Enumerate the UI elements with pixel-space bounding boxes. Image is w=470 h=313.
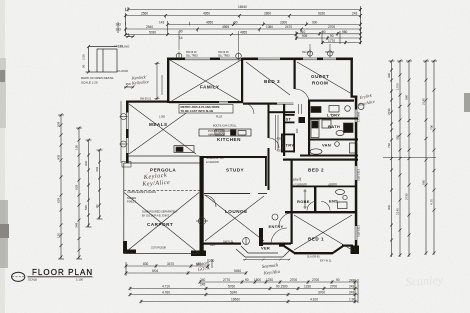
svg-text:143: 143 <box>116 23 122 27</box>
right step <box>351 96 358 98</box>
svg-text:SW 09 21: SW 09 21 <box>140 98 152 101</box>
svg-text:11: 11 <box>126 32 129 36</box>
svg-text:820: 820 <box>295 128 299 133</box>
svg-text:90: 90 <box>322 30 326 34</box>
svg-text:5/04: 5/04 <box>152 269 158 273</box>
wall over hall <box>269 111 295 113</box>
svg-text:143: 143 <box>159 20 165 24</box>
svg-text:2700: 2700 <box>330 285 337 289</box>
ldry/bath west wall <box>308 101 310 156</box>
svg-text:4.710: 4.710 <box>162 285 170 289</box>
svg-text:2300: 2300 <box>280 20 287 24</box>
svg-text:910: 910 <box>210 243 215 247</box>
notch wall <box>126 101 169 103</box>
svg-text:FLOOR PLAN: FLOOR PLAN <box>32 268 93 277</box>
svg-text:SW 09 0: SW 09 0 <box>302 51 312 54</box>
svg-text:90: 90 <box>336 278 340 282</box>
svg-text:SW 9 2L: SW 9 2L <box>223 240 234 244</box>
svg-text:1230: 1230 <box>266 278 273 282</box>
svg-text:BY (O) SUP A-E JOINT: BY (O) SUP A-E JOINT <box>142 214 169 218</box>
svg-text:96: 96 <box>82 64 86 68</box>
svg-text:980: 980 <box>342 30 348 34</box>
svg-text:BATH: BATH <box>328 124 340 129</box>
svg-text:ST: ST <box>286 117 292 122</box>
svg-text:LOUNGE: LOUNGE <box>225 209 248 214</box>
bed1 south wall stubs <box>279 245 285 247</box>
svg-text:2.55: 2.55 <box>82 54 86 60</box>
svg-text:CARPORT: CARPORT <box>147 222 173 227</box>
bath fixtures <box>310 104 364 155</box>
svg-text:90: 90 <box>245 278 249 282</box>
svg-text:2470: 2470 <box>285 25 292 29</box>
st/ptry west wall <box>283 104 285 156</box>
svg-text:90: 90 <box>330 34 334 38</box>
svg-text:905: 905 <box>57 155 61 160</box>
west wall window circles <box>121 114 127 120</box>
svg-text:243: 243 <box>349 279 355 283</box>
svg-text:ENTRY: ENTRY <box>269 224 284 229</box>
svg-text:ROBE: ROBE <box>297 199 310 204</box>
ldry south / bath north <box>310 118 358 120</box>
svg-text:760: 760 <box>387 143 391 148</box>
interior dim line left of family wall <box>155 62 163 100</box>
svg-text:628: 628 <box>57 198 61 203</box>
svg-text:1700: 1700 <box>396 83 400 90</box>
right wall upper <box>351 58 353 97</box>
svg-text:1.90: 1.90 <box>349 298 355 302</box>
svg-text:KITCHEN: KITCHEN <box>217 137 241 142</box>
lounge X diagonals <box>205 195 264 241</box>
svg-text:230: 230 <box>209 259 215 263</box>
svg-text:790: 790 <box>430 125 434 130</box>
svg-text:4.100: 4.100 <box>310 298 318 302</box>
top dim ticks <box>124 8 362 44</box>
bed3/guest divider <box>294 58 296 89</box>
svg-text:16560: 16560 <box>231 298 240 302</box>
svg-text:PERGOLA: PERGOLA <box>150 168 176 173</box>
robe/ens divider <box>314 187 316 212</box>
svg-text:150: 150 <box>126 82 131 86</box>
pergola / carport thin outline <box>124 156 200 254</box>
svg-text:420: 420 <box>277 149 282 153</box>
bed1 X diagonals <box>294 215 352 250</box>
family X diagonals <box>170 60 241 102</box>
ens fixtures <box>307 190 347 211</box>
svg-text:245: 245 <box>200 283 206 287</box>
scan left edge gray strip <box>0 0 5 313</box>
right dimension block <box>383 60 437 258</box>
left dimension block <box>58 114 103 260</box>
svg-text:TO BE CAST INTO SLAB: TO BE CAST INTO SLAB <box>181 109 214 113</box>
svg-text:4.70: 4.70 <box>430 199 434 205</box>
dimension division ticks <box>126 8 361 304</box>
svg-text:PTRY: PTRY <box>283 143 295 148</box>
ldry fixtures <box>311 107 321 113</box>
svg-text:EN 0906: EN 0906 <box>357 111 361 122</box>
svg-text:628: 628 <box>75 185 79 190</box>
family west wall <box>167 58 169 104</box>
note post <box>208 129 234 137</box>
outer walls (thick) <box>126 58 357 250</box>
bath south / van north <box>310 139 358 141</box>
study/lounge thick west wall <box>200 156 204 244</box>
lounge south wall <box>203 243 241 245</box>
bottom dim labels <box>143 259 355 302</box>
svg-text:1.092: 1.092 <box>159 116 166 119</box>
interior walls <box>123 58 359 256</box>
left dim rotated labels <box>57 122 100 238</box>
svg-text:4965: 4965 <box>222 25 229 29</box>
svg-text:SILL TRES: SILL TRES <box>218 54 230 57</box>
kitchen bench <box>174 129 251 153</box>
svg-text:830: 830 <box>143 262 149 266</box>
note slab poured <box>142 210 178 218</box>
svg-text:L'DRY: L'DRY <box>327 113 340 118</box>
svg-text:ALW 1813: ALW 1813 <box>357 225 361 237</box>
svg-text:NADER: NADER <box>127 196 136 200</box>
svg-text:FLOOR: FLOOR <box>118 69 129 73</box>
extra dim ticks left/right blocks <box>60 69 436 252</box>
svg-text:CEILING: CEILING <box>118 45 131 49</box>
svg-text:2700: 2700 <box>328 25 335 29</box>
svg-text:SLAB POURED SEPARATELY: SLAB POURED SEPARATELY <box>142 210 178 214</box>
svg-text:5450: 5450 <box>234 269 241 273</box>
svg-text:CARPE EAVES O/GANG: CARPE EAVES O/GANG <box>127 190 156 194</box>
bed3 south wall <box>243 103 277 105</box>
svg-text:2790: 2790 <box>405 193 409 200</box>
svg-text:406: 406 <box>95 167 99 172</box>
svg-text:PIXELS: PIXELS <box>127 200 136 204</box>
family/bed3 divider <box>241 58 243 103</box>
title: FLOOR PLAN <box>12 268 94 282</box>
svg-text:900: 900 <box>387 205 391 210</box>
svg-text:16540: 16540 <box>238 5 247 9</box>
svg-text:5030: 5030 <box>149 31 156 35</box>
guest room diagonal <box>246 62 352 95</box>
svg-text:& N/HOOD: & N/HOOD <box>206 160 219 164</box>
hall line <box>276 104 302 150</box>
svg-text:SCALE: SCALE <box>28 278 37 282</box>
meals X diagonals <box>129 104 196 154</box>
svg-text:VER: VER <box>261 246 270 251</box>
ver porch outline <box>236 246 290 257</box>
svg-text:SILL TRES: SILL TRES <box>186 54 198 57</box>
svg-text:MEALS: MEALS <box>149 122 168 127</box>
svg-text:350: 350 <box>396 135 400 140</box>
svg-text:580: 580 <box>405 95 409 100</box>
svg-text:2700: 2700 <box>312 278 319 282</box>
svg-text:990: 990 <box>387 73 391 78</box>
bed2 west wall <box>291 160 293 213</box>
svg-text:900: 900 <box>312 20 318 24</box>
svg-text:90: 90 <box>234 20 238 24</box>
entry A/C circle <box>196 214 278 225</box>
svg-text:BED 1: BED 1 <box>308 237 324 242</box>
svg-text:BED 3: BED 3 <box>264 79 280 84</box>
entry east wall <box>291 213 293 244</box>
svg-text:2770: 2770 <box>223 278 230 282</box>
svg-text:PLUS: PLUS <box>216 116 223 119</box>
study east wall <box>265 158 267 186</box>
note box metro <box>179 105 233 114</box>
bed2 north wall <box>283 159 358 161</box>
top dimension block <box>118 6 361 44</box>
svg-text:AMAN BRACE: AMAN BRACE <box>208 133 225 137</box>
svg-text:1230: 1230 <box>304 285 311 289</box>
svg-text:3170 R/2008: 3170 R/2008 <box>151 246 166 250</box>
svg-text:2140: 2140 <box>396 208 400 215</box>
bench tiny labels <box>159 116 237 135</box>
right dim rotated labels <box>387 73 434 215</box>
svg-text:2560: 2560 <box>141 11 148 15</box>
window thin double lines in gaps <box>126 58 357 240</box>
svg-text:5760: 5760 <box>228 285 235 289</box>
svg-text:90: 90 <box>179 30 183 34</box>
svg-text:143: 143 <box>116 28 122 32</box>
scan right edge blob <box>464 93 470 112</box>
svg-text:S/HEAD ETGS: S/HEAD ETGS <box>206 156 224 160</box>
svg-text:348: 348 <box>75 223 79 228</box>
svg-text:SCALE 1:20: SCALE 1:20 <box>81 81 98 85</box>
svg-text:120: 120 <box>57 233 61 238</box>
ptry walls <box>281 134 295 136</box>
svg-text:90 1500: 90 1500 <box>276 285 288 289</box>
svg-text:4.760: 4.760 <box>162 291 170 295</box>
svg-text:3700: 3700 <box>318 291 325 295</box>
svg-text:420: 420 <box>277 137 282 141</box>
detail box top-left <box>86 35 135 89</box>
svg-text:Scanley: Scanley <box>405 272 444 289</box>
svg-text:VAN: VAN <box>322 143 331 148</box>
svg-text:2860: 2860 <box>264 11 271 15</box>
svg-text:1:100: 1:100 <box>76 278 83 282</box>
carport X diagonals <box>124 193 199 254</box>
carport right pier <box>191 251 206 257</box>
svg-text:FAMILY: FAMILY <box>200 85 219 90</box>
svg-text:243: 243 <box>349 291 355 295</box>
svg-text:4955: 4955 <box>240 31 247 35</box>
svg-text:2790: 2790 <box>387 108 391 115</box>
robe/ens south wall <box>285 211 357 213</box>
linen dark box <box>299 117 306 123</box>
svg-text:RHPK 03 OPEN DETAIL: RHPK 03 OPEN DETAIL <box>81 76 114 80</box>
family south wall <box>169 101 219 103</box>
carport left footing <box>123 241 127 254</box>
svg-text:905: 905 <box>302 34 308 38</box>
entry west thick wall <box>259 228 263 246</box>
note nader <box>127 196 136 204</box>
svg-text:POST & CAA CANTIL: POST & CAA CANTIL <box>208 129 234 133</box>
top wall segments with window gaps <box>167 58 185 61</box>
svg-text:14: 14 <box>179 36 183 40</box>
study north wall <box>203 156 267 158</box>
note s/head <box>206 156 224 164</box>
eaves line west <box>121 101 131 167</box>
door arcs <box>204 89 309 244</box>
right wall rotated window labels <box>357 111 361 237</box>
svg-text:150: 150 <box>75 145 79 150</box>
top dim labels <box>114 5 358 48</box>
west wall segments with window gaps <box>126 101 129 113</box>
svg-text:ENS: ENS <box>329 199 338 204</box>
svg-text:1360: 1360 <box>266 25 273 29</box>
window labels above top wall <box>186 51 335 57</box>
svg-text:STUDY: STUDY <box>226 168 244 173</box>
room labels <box>147 74 329 242</box>
svg-text:BED 2: BED 2 <box>308 168 324 173</box>
robe rail <box>304 189 307 209</box>
svg-text:4950: 4950 <box>203 11 210 15</box>
svg-text:4950: 4950 <box>206 20 213 24</box>
svg-text:240: 240 <box>200 278 206 282</box>
svg-text:520: 520 <box>84 205 88 210</box>
porch small dim ticks <box>243 258 290 260</box>
svg-text:900: 900 <box>84 161 88 166</box>
svg-text:3470: 3470 <box>167 262 174 266</box>
svg-text:5240: 5240 <box>230 291 237 295</box>
bed1 bay bottom <box>294 252 333 254</box>
st closet <box>284 114 295 116</box>
svg-text:GUEST: GUEST <box>311 74 329 79</box>
svg-text:400m: 400m <box>328 181 337 187</box>
svg-text:9230: 9230 <box>318 11 325 15</box>
svg-text:SLA OR 60: SLA OR 60 <box>307 256 320 259</box>
svg-text:ALW 1813: ALW 1813 <box>357 169 361 181</box>
bed1 bay angles <box>284 246 343 253</box>
guest south wall <box>308 100 354 102</box>
bottom dimension block <box>125 259 359 303</box>
hall west wall <box>268 103 270 138</box>
svg-text:243: 243 <box>352 11 358 15</box>
svg-text:EXY W 2L: EXY W 2L <box>320 260 332 263</box>
robe/ens north <box>293 186 357 188</box>
van south <box>300 155 358 157</box>
svg-text:2700: 2700 <box>290 278 297 282</box>
handwriting annotations <box>131 74 376 275</box>
leader lines from dim block to window circles <box>179 31 330 51</box>
window section circles on top wall <box>120 50 333 148</box>
svg-text:243: 243 <box>349 285 355 289</box>
svg-text:ROOM: ROOM <box>312 81 328 86</box>
study south wall <box>204 193 267 195</box>
van fixtures <box>310 149 322 154</box>
right wall lower segments <box>355 96 358 110</box>
bottom-right corner block <box>351 246 360 255</box>
svg-text:560: 560 <box>422 180 426 185</box>
floor waste circle VER <box>243 237 250 245</box>
svg-text:2540: 2540 <box>146 25 153 29</box>
svg-text:BOLT B./CAA C.ROLL: BOLT B./CAA C.ROLL <box>213 125 237 128</box>
svg-text:1770: 1770 <box>328 39 335 43</box>
